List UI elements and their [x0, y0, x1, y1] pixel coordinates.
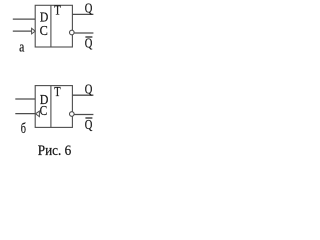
label Q of U1 — [85, 2, 93, 17]
svg-text:а: а — [19, 39, 24, 56]
wire D input of U1 — [13, 18, 35, 20]
pin label C of U1 — [40, 24, 48, 39]
dynamic input triangle of U1 (rising edge) — [32, 28, 36, 34]
label T of U2 — [54, 84, 61, 99]
label T of U1 — [54, 3, 61, 18]
label а (variant marker) — [19, 39, 24, 56]
wire Q output of U1 — [73, 13, 94, 15]
wire inverted output of U2 — [74, 114, 93, 116]
label Q-bar of U2 — [85, 118, 93, 133]
dynamic input triangle of U2 (falling edge) — [36, 111, 40, 117]
wire C input of U1 — [13, 30, 32, 32]
inversion bubble of U2 — [70, 112, 75, 117]
svg-text:C: C — [40, 104, 48, 119]
wire Q output of U2 — [73, 94, 94, 96]
label Q of U2 — [85, 82, 93, 97]
svg-text:T: T — [54, 3, 61, 18]
svg-text:C: C — [40, 24, 48, 39]
svg-text:Рис. 6: Рис. 6 — [38, 143, 72, 159]
body outline of U2 — [35, 86, 72, 128]
svg-text:T: T — [54, 84, 61, 99]
pin label D of U2 — [40, 93, 49, 108]
wire inverted output of U1 — [74, 32, 93, 34]
wire C input of U2 — [15, 113, 35, 115]
pin label D of U1 — [40, 11, 48, 26]
label б (variant marker) — [21, 121, 26, 137]
inversion bubble of U1 — [70, 30, 75, 35]
body outline of U1 — [35, 5, 72, 47]
pin label C of U2 — [40, 104, 48, 119]
svg-text:Q: Q — [85, 82, 93, 97]
svg-text:Q: Q — [85, 37, 93, 52]
label Q-bar of U1 — [85, 37, 93, 52]
divider of U2 — [50, 86, 52, 128]
svg-text:б: б — [21, 121, 26, 137]
svg-text:Q: Q — [85, 2, 93, 17]
wire D input of U2 — [15, 98, 35, 100]
caption Рис. 6 — [38, 143, 72, 159]
divider of U1 — [50, 5, 52, 47]
svg-text:Q: Q — [85, 118, 93, 133]
